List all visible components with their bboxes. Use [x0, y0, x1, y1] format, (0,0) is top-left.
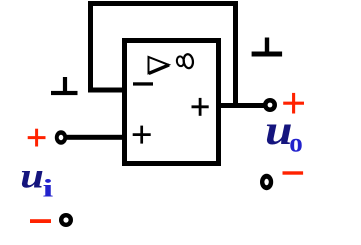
wire top feedback horizontal — [88, 1, 238, 6]
op-amp U1 inverting input minus mark — [133, 82, 153, 85]
op-amp U1 triangle symbol — [149, 57, 170, 73]
ground symbol right — [252, 38, 283, 57]
svg-text:o: o — [289, 128, 303, 158]
op-amp U1 box — [125, 41, 219, 164]
terminal input plus — [55, 130, 67, 144]
output plus polarity mark (red) — [283, 93, 304, 114]
input plus polarity mark (red) — [28, 129, 46, 147]
label u_i input voltage — [20, 155, 53, 202]
input minus polarity mark (red) — [30, 219, 51, 223]
svg-text:i: i — [42, 175, 53, 203]
wire output horizontal — [216, 103, 265, 108]
svg-text:u: u — [20, 155, 44, 195]
wire inverting input horizontal — [88, 88, 127, 93]
wire feedback left vertical — [88, 1, 93, 93]
terminal output minus — [260, 174, 273, 190]
wire feedback right vertical — [233, 1, 238, 108]
label u_o output voltage — [265, 106, 303, 157]
ground symbol left — [51, 77, 78, 95]
op-amp U1 infinity gain label — [176, 54, 194, 69]
op-amp U1 non-inverting input plus mark — [133, 126, 151, 144]
output minus polarity mark (red) — [283, 171, 304, 174]
wire input horizontal — [66, 135, 124, 140]
terminal output plus — [263, 98, 277, 112]
op-amp U1 output plus mark — [192, 98, 209, 116]
terminal input minus — [59, 213, 73, 227]
